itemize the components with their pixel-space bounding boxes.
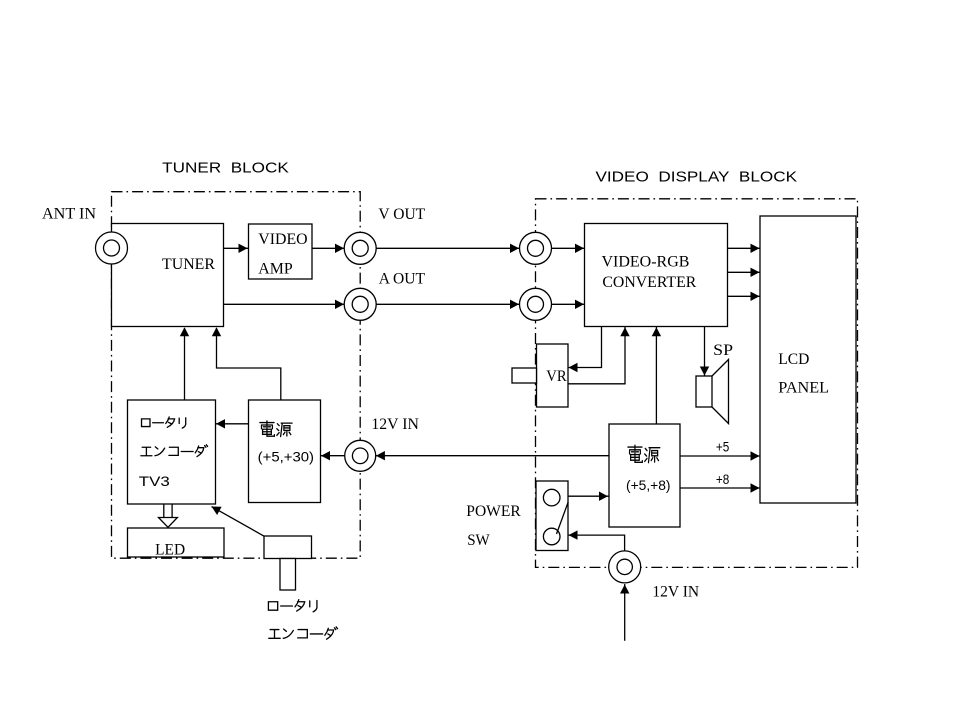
wire power switch to power2 (568, 495, 609, 497)
VR shaft (512, 368, 537, 383)
svg-text:CONVERTER: CONVERTER (602, 274, 696, 291)
VIDEO DISPLAY BLOCK dashed border (536, 199, 858, 568)
svg-text:VIDEO DISPLAY BLOCK: VIDEO DISPLAY BLOCK (596, 168, 798, 185)
svg-text:(+5,+8): (+5,+8) (626, 477, 671, 493)
jack ANT IN (96, 232, 128, 264)
arrow switch into power2 (599, 492, 608, 501)
wire A jack to converter (551, 303, 585, 305)
wire VR to converter (568, 327, 625, 384)
power switch lever (557, 502, 569, 534)
svg-text:AMP: AMP (258, 261, 292, 278)
wire converter G out (728, 271, 761, 273)
svg-text:VIDEO-RGB: VIDEO-RGB (602, 253, 690, 270)
power switch contact 1 (543, 489, 560, 506)
TUNER BLOCK dashed border (112, 192, 361, 559)
jack V OUT (344, 232, 376, 264)
block LED (128, 528, 225, 557)
wire power1 to TUNER (217, 328, 281, 400)
svg-text:LCD: LCD (778, 351, 809, 368)
jack A OUT (344, 288, 376, 320)
arrow VR into converter (620, 327, 629, 336)
power switch contact 2 (543, 528, 560, 545)
arrow into A OUT jack (335, 300, 344, 309)
arrow into audio jack (510, 300, 519, 309)
svg-text:TUNER: TUNER (162, 256, 215, 273)
arrow power2 into converter (652, 327, 661, 336)
wire A OUT to video block jack (376, 303, 520, 305)
jack 12V IN video (609, 551, 641, 583)
rotary encoder body (264, 536, 312, 559)
wire converter to VR (568, 327, 602, 368)
wire +8 to LCD (680, 487, 760, 489)
speaker cone (712, 360, 729, 424)
open arrow TV3 to LED (163, 504, 165, 518)
block LCD PANEL (760, 216, 856, 503)
wire +5 to LCD (680, 455, 760, 457)
arrow into power switch (569, 530, 578, 539)
wire power1 to encoder (216, 423, 249, 425)
arrow into speaker (700, 367, 709, 376)
wire VIDEO AMP to V OUT jack (312, 247, 345, 249)
svg-text:TV3: TV3 (139, 473, 170, 489)
block rotary encoder TV3 (128, 400, 216, 504)
arrow encoder into TUNER (180, 327, 189, 336)
speaker body (696, 376, 712, 407)
svg-text:A OUT: A OUT (379, 270, 425, 287)
label rotary katakana bottom1 (268, 600, 317, 612)
block TUNER (112, 224, 224, 327)
svg-text:LED: LED (155, 542, 185, 559)
svg-text:12V IN: 12V IN (652, 583, 699, 600)
svg-text:12V IN: 12V IN (371, 416, 419, 433)
arrow R into LCD (751, 244, 760, 253)
wire 12V jack to power switch (568, 535, 625, 552)
wire encoder to TUNER (184, 328, 186, 400)
arrow B into LCD (751, 292, 760, 301)
svg-text:(+5,+30): (+5,+30) (258, 449, 314, 465)
wire power2 to converter (655, 327, 657, 424)
arrow into 12V jack video (620, 585, 629, 594)
wire 12V input stub (624, 584, 626, 641)
wire converter B out (728, 295, 761, 297)
arrow power1 into TUNER (212, 327, 221, 336)
label encoder katakana bottom2 (269, 627, 338, 639)
block VIDEO AMP (249, 224, 313, 279)
arrow into converter audio (575, 300, 584, 309)
block VR (537, 344, 569, 407)
block VIDEO-RGB CONVERTER (585, 224, 728, 327)
wire V jack to converter (551, 247, 585, 249)
svg-text:TUNER BLOCK: TUNER BLOCK (162, 159, 289, 176)
arrow into VIDEO AMP (239, 244, 248, 253)
wire rotary encoder to TV3 box (212, 507, 265, 537)
arrow G into LCD (751, 268, 760, 277)
arrow into V OUT jack (335, 244, 344, 253)
jack audio in (520, 288, 552, 320)
label power2 kanji (628, 445, 660, 463)
label power1 kanji (260, 421, 292, 437)
block power1 +5 +30 (249, 400, 321, 503)
label rotary katakana line1 (142, 417, 186, 428)
arrow power1 into encoder (216, 419, 225, 428)
power switch body (536, 481, 568, 551)
jack video in (520, 232, 552, 264)
arrow into power1 (321, 451, 330, 460)
label encoder katakana line2 (141, 445, 208, 457)
arrow into video jack (510, 244, 519, 253)
svg-text:VR: VR (546, 368, 567, 385)
arrow +8 into LCD (751, 483, 760, 492)
svg-text:SW: SW (467, 532, 490, 549)
arrow into 12V jack tuner (376, 451, 385, 460)
svg-text:VIDEO: VIDEO (258, 231, 307, 248)
arrow into VR (569, 363, 578, 372)
jack 12V IN tuner (345, 440, 376, 471)
svg-text:+5: +5 (716, 439, 730, 455)
svg-text:POWER: POWER (466, 503, 521, 520)
wire V OUT to video block jack (376, 247, 520, 249)
svg-text:+8: +8 (716, 471, 730, 487)
arrow rotary into TV3 box (212, 507, 222, 516)
svg-text:SP: SP (713, 342, 733, 359)
wire converter R out (728, 247, 761, 249)
svg-text:ANT IN: ANT IN (42, 206, 96, 223)
wire TUNER to A OUT jack (224, 303, 346, 305)
wire TUNER to VIDEO AMP (224, 247, 249, 249)
block power2 +5 +8 (609, 424, 680, 527)
arrow +5 into LCD (751, 451, 760, 460)
rotary encoder shaft (280, 559, 296, 591)
svg-text:V OUT: V OUT (378, 206, 425, 223)
arrow into converter video (575, 244, 584, 253)
wire converter to speaker (704, 327, 706, 376)
svg-text:PANEL: PANEL (778, 380, 829, 397)
wire 12V bus (321, 455, 609, 457)
